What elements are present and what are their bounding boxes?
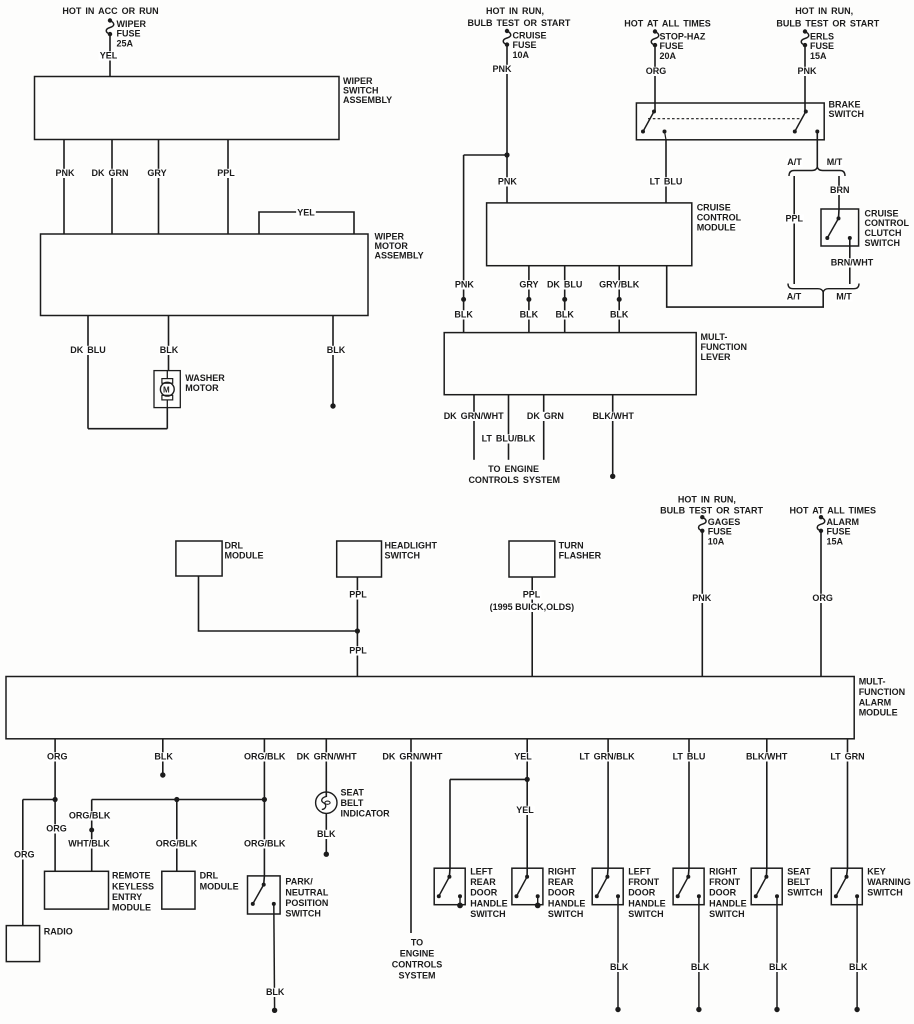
svg-text:BRN: BRN (830, 185, 850, 195)
svg-text:STOP-HAZ: STOP-HAZ (660, 32, 706, 42)
svg-text:FUSE: FUSE (810, 41, 834, 51)
svg-text:YEL: YEL (514, 752, 532, 762)
svg-text:SWITCH: SWITCH (628, 909, 664, 919)
svg-text:MODULE: MODULE (859, 708, 898, 718)
svg-text:CLUTCH: CLUTCH (865, 228, 902, 238)
svg-text:TO ENGINE: TO ENGINE (488, 464, 539, 474)
svg-text:PPL: PPL (349, 646, 367, 656)
svg-text:SWITCH: SWITCH (829, 109, 865, 119)
svg-text:ASSEMBLY: ASSEMBLY (375, 251, 424, 261)
svg-text:GRY/BLK: GRY/BLK (599, 280, 640, 290)
svg-text:HEADLIGHT: HEADLIGHT (385, 541, 438, 551)
svg-text:BULB TEST OR START: BULB TEST OR START (467, 18, 570, 28)
svg-text:LT BLU: LT BLU (673, 752, 706, 762)
svg-text:CONTROLS: CONTROLS (392, 960, 443, 970)
svg-text:WARNING: WARNING (867, 877, 911, 887)
svg-text:(1995 BUICK,OLDS): (1995 BUICK,OLDS) (490, 602, 575, 612)
svg-text:BLK: BLK (555, 310, 574, 320)
svg-text:WIPER: WIPER (375, 232, 405, 242)
svg-text:HANDLE: HANDLE (709, 898, 747, 908)
svg-text:M: M (163, 385, 170, 394)
svg-text:M/T: M/T (827, 157, 843, 167)
svg-text:25A: 25A (117, 38, 134, 48)
svg-text:ORG: ORG (812, 593, 833, 603)
svg-text:ORG: ORG (14, 850, 35, 860)
svg-text:LT GRN: LT GRN (830, 752, 864, 762)
svg-text:PARK/: PARK/ (285, 877, 313, 887)
svg-text:PPL: PPL (349, 590, 367, 600)
svg-text:PPL: PPL (217, 168, 235, 178)
svg-text:FUSE: FUSE (708, 527, 732, 537)
svg-text:DOOR: DOOR (628, 888, 656, 898)
svg-text:DK GRN/WHT: DK GRN/WHT (297, 752, 357, 762)
svg-text:FUSE: FUSE (513, 40, 537, 50)
svg-text:CONTROL: CONTROL (865, 218, 910, 228)
svg-text:BLK: BLK (266, 987, 285, 997)
svg-text:ORG/BLK: ORG/BLK (69, 811, 111, 821)
svg-text:BLK: BLK (520, 310, 539, 320)
svg-text:10A: 10A (708, 536, 725, 546)
svg-text:BLK: BLK (160, 345, 179, 355)
svg-text:SWITCH: SWITCH (865, 238, 901, 248)
svg-text:BELT: BELT (341, 798, 364, 808)
svg-text:PPL: PPL (785, 214, 803, 224)
svg-text:SWITCH: SWITCH (385, 550, 421, 560)
svg-text:SYSTEM: SYSTEM (398, 971, 435, 981)
svg-text:HOT IN ACC OR RUN: HOT IN ACC OR RUN (62, 6, 158, 16)
svg-text:BELT: BELT (787, 877, 810, 887)
svg-text:MULT-: MULT- (701, 332, 728, 342)
svg-text:FRONT: FRONT (709, 877, 740, 887)
svg-text:WASHER: WASHER (185, 373, 225, 383)
svg-text:10A: 10A (513, 50, 530, 60)
svg-text:MOTOR: MOTOR (185, 383, 219, 393)
svg-text:BLK: BLK (317, 829, 336, 839)
svg-text:ORG/BLK: ORG/BLK (156, 839, 198, 849)
svg-text:SWITCH: SWITCH (343, 86, 379, 96)
svg-text:A/T: A/T (787, 292, 802, 302)
svg-text:20A: 20A (660, 51, 677, 61)
svg-text:WIPER: WIPER (343, 76, 373, 86)
svg-text:BLK/WHT: BLK/WHT (592, 411, 634, 421)
svg-text:FUSE: FUSE (117, 29, 141, 39)
svg-text:GAGES: GAGES (708, 517, 741, 527)
svg-text:LEFT: LEFT (470, 867, 493, 877)
svg-text:MULT-: MULT- (859, 677, 886, 687)
svg-text:FLASHER: FLASHER (559, 550, 602, 560)
svg-text:ORG/BLK: ORG/BLK (244, 752, 286, 762)
svg-text:SEAT: SEAT (341, 788, 365, 798)
svg-text:PNK: PNK (55, 168, 75, 178)
svg-text:ALARM: ALARM (827, 517, 860, 527)
svg-text:POSITION: POSITION (285, 898, 328, 908)
svg-text:MOTOR: MOTOR (375, 241, 409, 251)
svg-text:REMOTE: REMOTE (112, 871, 151, 881)
svg-text:DK GRN: DK GRN (92, 168, 129, 178)
svg-text:ORG: ORG (46, 824, 67, 834)
svg-text:HOT AT ALL TIMES: HOT AT ALL TIMES (624, 19, 711, 29)
svg-text:SEAT: SEAT (787, 867, 811, 877)
svg-text:PNK: PNK (498, 177, 518, 187)
svg-text:RIGHT: RIGHT (709, 867, 738, 877)
svg-text:FUSE: FUSE (660, 41, 684, 51)
svg-text:DK BLU: DK BLU (547, 280, 583, 290)
svg-text:ORG: ORG (47, 752, 68, 762)
svg-text:TURN: TURN (559, 541, 584, 551)
svg-text:BLK: BLK (610, 962, 629, 972)
svg-text:BLK: BLK (849, 962, 868, 972)
svg-text:FUNCTION: FUNCTION (859, 687, 906, 697)
svg-text:MODULE: MODULE (112, 902, 151, 912)
svg-text:REAR: REAR (470, 877, 496, 887)
svg-text:ASSEMBLY: ASSEMBLY (343, 95, 392, 105)
svg-text:YEL: YEL (297, 208, 315, 218)
svg-text:GRY: GRY (519, 280, 538, 290)
svg-text:MODULE: MODULE (200, 881, 239, 891)
svg-text:HANDLE: HANDLE (548, 898, 586, 908)
svg-text:REAR: REAR (548, 877, 574, 887)
svg-text:LEFT: LEFT (628, 867, 651, 877)
svg-text:BULB TEST OR START: BULB TEST OR START (660, 506, 763, 516)
svg-text:HOT IN RUN,: HOT IN RUN, (486, 6, 544, 16)
svg-text:MODULE: MODULE (225, 550, 264, 560)
svg-text:HANDLE: HANDLE (628, 898, 666, 908)
svg-text:BLK: BLK (454, 310, 473, 320)
svg-text:ORG/BLK: ORG/BLK (244, 839, 286, 849)
svg-text:ORG: ORG (646, 66, 667, 76)
svg-text:BULB TEST OR START: BULB TEST OR START (776, 19, 879, 29)
svg-text:GRY: GRY (147, 168, 166, 178)
svg-text:BRN/WHT: BRN/WHT (831, 258, 874, 268)
svg-text:RIGHT: RIGHT (548, 867, 577, 877)
svg-text:LEVER: LEVER (701, 352, 732, 362)
svg-text:ENTRY: ENTRY (112, 892, 142, 902)
svg-text:HANDLE: HANDLE (470, 898, 508, 908)
svg-text:PNK: PNK (797, 66, 817, 76)
svg-text:ENGINE: ENGINE (400, 949, 435, 959)
svg-text:SWITCH: SWITCH (867, 888, 903, 898)
svg-text:TO: TO (411, 938, 423, 948)
svg-text:SWITCH: SWITCH (709, 909, 745, 919)
svg-text:SWITCH: SWITCH (470, 909, 506, 919)
svg-text:RADIO: RADIO (44, 927, 73, 937)
svg-text:DK GRN: DK GRN (527, 411, 564, 421)
svg-text:DOOR: DOOR (470, 888, 498, 898)
svg-text:KEYLESS: KEYLESS (112, 881, 154, 891)
svg-text:HOT IN RUN,: HOT IN RUN, (678, 495, 736, 505)
svg-text:CRUISE: CRUISE (865, 208, 899, 218)
svg-text:CONTROL: CONTROL (697, 213, 742, 223)
svg-text:DRL: DRL (200, 871, 219, 881)
svg-text:DOOR: DOOR (548, 888, 576, 898)
svg-text:FUSE: FUSE (827, 527, 851, 537)
svg-text:NEUTRAL: NEUTRAL (285, 887, 328, 897)
svg-text:15A: 15A (810, 51, 827, 61)
svg-text:DK BLU: DK BLU (70, 345, 106, 355)
svg-text:BLK/WHT: BLK/WHT (746, 752, 788, 762)
svg-text:M/T: M/T (836, 292, 852, 302)
svg-text:YEL: YEL (516, 805, 534, 815)
svg-text:ERLS: ERLS (810, 32, 834, 42)
svg-text:PPL: PPL (523, 590, 541, 600)
svg-text:CRUISE: CRUISE (513, 31, 547, 41)
svg-text:BLK: BLK (691, 962, 710, 972)
svg-text:SWITCH: SWITCH (787, 888, 823, 898)
svg-text:PNK: PNK (455, 280, 475, 290)
svg-text:15A: 15A (827, 536, 844, 546)
svg-text:HOT IN RUN,: HOT IN RUN, (795, 6, 853, 16)
svg-text:PNK: PNK (492, 64, 512, 74)
svg-text:WHT/BLK: WHT/BLK (68, 839, 110, 849)
svg-text:LT BLU/BLK: LT BLU/BLK (482, 434, 536, 444)
svg-text:KEY: KEY (867, 867, 886, 877)
svg-text:LT GRN/BLK: LT GRN/BLK (579, 752, 635, 762)
svg-text:PNK: PNK (692, 593, 712, 603)
svg-text:DOOR: DOOR (709, 888, 737, 898)
svg-text:SWITCH: SWITCH (548, 909, 584, 919)
svg-text:LT BLU: LT BLU (650, 177, 683, 187)
svg-text:ALARM: ALARM (859, 697, 892, 707)
svg-text:DRL: DRL (225, 541, 244, 551)
svg-text:INDICATOR: INDICATOR (341, 808, 391, 818)
svg-text:BLK: BLK (154, 752, 173, 762)
svg-text:DK GRN/WHT: DK GRN/WHT (382, 752, 442, 762)
svg-text:SWITCH: SWITCH (285, 908, 321, 918)
svg-text:CONTROLS SYSTEM: CONTROLS SYSTEM (468, 475, 560, 485)
svg-text:YEL: YEL (100, 51, 118, 61)
svg-text:BLK: BLK (769, 962, 788, 972)
svg-text:HOT AT ALL TIMES: HOT AT ALL TIMES (790, 506, 877, 516)
svg-text:FUNCTION: FUNCTION (701, 342, 748, 352)
svg-text:MODULE: MODULE (697, 222, 736, 232)
svg-text:DK GRN/WHT: DK GRN/WHT (444, 411, 504, 421)
svg-text:A/T: A/T (787, 157, 802, 167)
svg-text:FRONT: FRONT (628, 877, 659, 887)
svg-text:CRUISE: CRUISE (697, 203, 731, 213)
svg-text:BLK: BLK (327, 345, 346, 355)
svg-text:WIPER: WIPER (117, 19, 147, 29)
svg-text:BLK: BLK (610, 310, 629, 320)
svg-text:BRAKE: BRAKE (829, 100, 861, 110)
